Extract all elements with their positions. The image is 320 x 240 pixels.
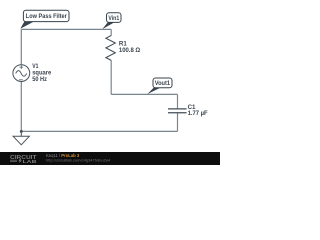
callout Vout1 tail — [147, 87, 161, 94]
svg-text:1.77 µF: 1.77 µF — [188, 110, 208, 117]
V1 sine glyph — [16, 71, 27, 77]
svg-text:50 Hz: 50 Hz — [32, 76, 47, 83]
wire top: node Vin from corner (21,29) to (111,29) — [21, 28, 111, 30]
wire left upper: (21,29) down to V1 top — [20, 29, 22, 64]
V1 plus mark — [20, 65, 24, 69]
callout Low Pass Filter box — [23, 10, 69, 21]
wire resistor bottom lead to Vout corner — [110, 60, 112, 94]
wire left lower: V1 bottom down to ground node — [20, 81, 22, 131]
resistor R1 zigzag — [106, 36, 115, 61]
voltage source V1 circle — [13, 65, 30, 82]
V1 minus mark — [19, 79, 23, 81]
ground symbol — [20, 131, 22, 136]
footer logo bolt — [19, 159, 23, 163]
footer logo lines — [10, 160, 17, 162]
callout Vin1 tail — [102, 22, 115, 29]
wire mid Vout: (111,94) to (177.5,94) — [111, 93, 177, 95]
capacitor C1 plates — [168, 109, 187, 113]
wire resistor top lead from Vin corner — [110, 29, 112, 35]
svg-text:Vout1: Vout1 — [155, 80, 171, 87]
callout Low Pass Filter tail — [20, 21, 34, 29]
wire bottom: (21,131) to (177.5,131) — [21, 130, 177, 132]
junction dot ground node — [20, 130, 23, 133]
wire right cap lower stub — [177, 113, 179, 132]
svg-text:LAB: LAB — [23, 159, 38, 164]
callout Vout1 box — [153, 78, 172, 88]
svg-text:Low Pass Filter: Low Pass Filter — [26, 13, 68, 20]
svg-text:Vin1: Vin1 — [108, 15, 119, 22]
callout Vin1 box — [107, 13, 122, 23]
svg-text:http://circuitlab.com/c4g347hd: http://circuitlab.com/c4g347hdnu2e4 — [46, 158, 111, 163]
wire right cap upper stub — [177, 94, 179, 109]
footer bar — [0, 152, 220, 165]
svg-text:100.8 Ω: 100.8 Ω — [119, 47, 140, 54]
